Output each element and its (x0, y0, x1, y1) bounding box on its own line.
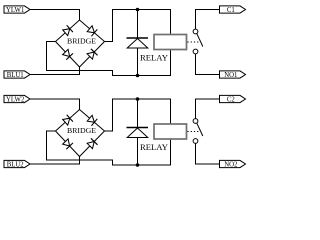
wire switch NO contact to NO1 (196, 54, 221, 75)
mechanical linkage (dotted) relay to switch (188, 131, 200, 133)
bridge diode D4 (bottom to right) (87, 142, 94, 149)
svg-text:NO1: NO1 (224, 72, 237, 79)
wire C2 to switch common (196, 99, 221, 119)
bridge diode D2 (top to right) (87, 115, 94, 122)
terminal tag NO2 (220, 160, 246, 168)
flyback diode across relay coil K1 (127, 10, 149, 76)
terminal tag NO1 (220, 71, 246, 79)
svg-text:RELAY: RELAY (140, 143, 168, 152)
junction dot top rail (136, 8, 140, 12)
bridge rectifier BR2 diamond (56, 110, 105, 157)
relay coil K2 (140, 124, 187, 152)
wire BLU2 to bridge AC bottom (30, 157, 80, 165)
relay circuit 1 (4, 6, 246, 79)
wire C1 to switch common (196, 10, 221, 30)
terminal tag YLW1 (4, 6, 30, 14)
svg-text:YLW1: YLW1 (6, 7, 24, 14)
bridge diode D2 (top to right) (87, 26, 94, 33)
wire switch NO contact to NO2 (196, 143, 221, 164)
bridge diode D3 (left to bottom) (63, 49, 70, 56)
svg-text:BRIDGE: BRIDGE (67, 127, 96, 135)
terminal tag BLU1 (4, 71, 30, 79)
bridge rectifier BR1 diamond (56, 20, 105, 67)
switch contact SW1 (193, 29, 203, 54)
junction dot top rail (136, 97, 140, 101)
junction dot bottom rail (136, 163, 140, 167)
terminal tag C1 (220, 6, 246, 14)
svg-text:RELAY: RELAY (140, 54, 168, 63)
wire BLU1 to bridge AC bottom (30, 67, 80, 75)
terminal tag C2 (220, 95, 246, 103)
svg-text:YLW2: YLW2 (6, 96, 25, 103)
relay coil K1 (140, 35, 187, 63)
flyback diode across relay coil K2 (127, 99, 149, 165)
bridge diode D4 (bottom to right) (87, 52, 94, 59)
wire bridge positive (right corner) to top rail (105, 99, 171, 131)
svg-text:NO2: NO2 (224, 161, 238, 168)
mechanical linkage (dotted) relay to switch (188, 41, 200, 43)
switch contact SW2 (193, 119, 203, 144)
wire YLW1 to bridge AC top (30, 10, 80, 21)
wire YLW2 to bridge AC top (30, 99, 80, 110)
junction dot bottom rail (136, 74, 140, 78)
wire bridge negative (left corner) to bottom rail (47, 42, 171, 76)
svg-text:BRIDGE: BRIDGE (67, 38, 96, 46)
svg-text:BLU1: BLU1 (7, 72, 24, 79)
svg-text:BLU2: BLU2 (7, 161, 25, 168)
bridge diode D3 (left to bottom) (63, 139, 70, 146)
wire bridge positive (right corner) to top rail (105, 10, 171, 42)
bridge diode D1 (left to top) (63, 29, 70, 36)
svg-text:C2: C2 (227, 96, 236, 103)
terminal tag YLW2 (4, 95, 30, 103)
relay circuit 2 (4, 95, 246, 168)
wire bridge negative (left corner) to bottom rail (47, 131, 171, 165)
terminal tag BLU2 (4, 160, 30, 168)
bridge diode D1 (left to top) (63, 118, 70, 125)
svg-text:C1: C1 (227, 7, 235, 14)
